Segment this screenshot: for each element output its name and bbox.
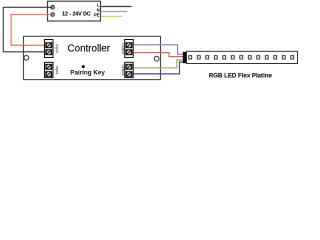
input terminal block J2 (lower left) [45,62,54,77]
wire PE yellow mains [101,15,122,17]
wire DC- red from power supply to controller input [11,15,52,46]
wire L black mains [101,6,131,8]
wire DC+ black from power supply to controller input [3,7,52,52]
output terminal block J4 (lower right) [125,62,134,77]
wire N blue mains [101,11,127,13]
svg-text:12 - 24V DC: 12 - 24V DC [62,11,91,17]
svg-text:Pairing Key: Pairing Key [70,69,105,76]
mounting hole right [154,56,159,61]
wire red output to LED strip [134,53,184,57]
pairing key button dot [82,65,85,68]
wire navy output to LED strip [134,62,184,74]
PSU DC terminal + [51,6,55,10]
wire blue output to LED strip [134,45,184,54]
svg-text:Input: Input [55,66,59,74]
svg-text:RGB LED Flex Platine: RGB LED Flex Platine [209,73,273,80]
svg-text:Controller: Controller [68,43,111,54]
PSU DC terminal - [51,13,55,17]
output terminal block J3 (upper right) [125,40,134,58]
LED strip end cap connector [183,52,187,63]
svg-text:Output: Output [121,43,125,54]
svg-text:Input: Input [55,44,59,52]
LED strip body [187,51,298,63]
svg-text:PE: PE [94,13,100,18]
svg-text:Output: Output [121,64,125,75]
wire green output to LED strip [134,60,184,68]
input terminal block J1 (upper left) [45,40,54,58]
mounting hole left [24,55,29,60]
LED chips row [189,56,294,59]
power supply PSU box [48,1,101,21]
controller box [24,36,161,79]
